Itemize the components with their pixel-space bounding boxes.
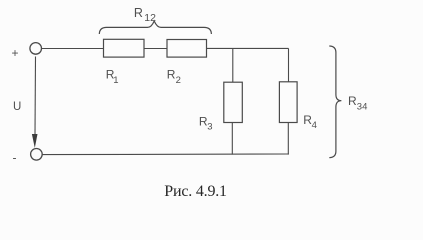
wire top rail from terminal to R1 — [42, 48, 104, 50]
wire bottom rail — [42, 153, 288, 156]
svg-text:-: - — [13, 151, 17, 165]
wire from R3 bottom to bottom rail — [231, 123, 233, 155]
wire between R1 and R2 — [144, 48, 167, 50]
wire from R4 bottom to bottom rail — [287, 123, 289, 155]
brace over R1 R2 — [99, 21, 211, 34]
svg-text:R: R — [134, 6, 143, 20]
label R3 — [199, 114, 213, 132]
svg-text:+: + — [12, 46, 19, 60]
top terminal circle — [30, 43, 42, 55]
label R2 — [167, 68, 181, 86]
wire drop from top rail to R4 — [288, 48, 290, 81]
label R1 — [106, 68, 119, 86]
svg-text:4: 4 — [312, 120, 317, 131]
svg-text:Рис. 4.9.1: Рис. 4.9.1 — [164, 183, 227, 200]
svg-text:1: 1 — [113, 75, 118, 86]
svg-text:3: 3 — [207, 122, 212, 133]
label R4 — [303, 113, 317, 131]
svg-text:U: U — [13, 101, 21, 113]
svg-text:34: 34 — [357, 102, 368, 113]
wire top rail from R2 to R4 branch corner — [207, 47, 289, 49]
wire left source vertical — [34, 57, 37, 136]
svg-text:12: 12 — [144, 12, 156, 24]
resistor R2 — [167, 40, 207, 58]
resistor R3 — [224, 82, 243, 122]
svg-text:R: R — [167, 68, 176, 82]
resistor R4 — [279, 82, 297, 123]
svg-text:2: 2 — [176, 75, 181, 86]
wire junction drop to R3 — [232, 48, 234, 82]
arrowhead of U — [32, 134, 38, 148]
label R34 — [348, 94, 367, 113]
label R12 — [134, 6, 156, 24]
resistor R1 — [104, 39, 145, 57]
bottom terminal circle — [31, 149, 43, 161]
svg-text:R: R — [348, 94, 357, 108]
brace R34 — [329, 46, 341, 158]
